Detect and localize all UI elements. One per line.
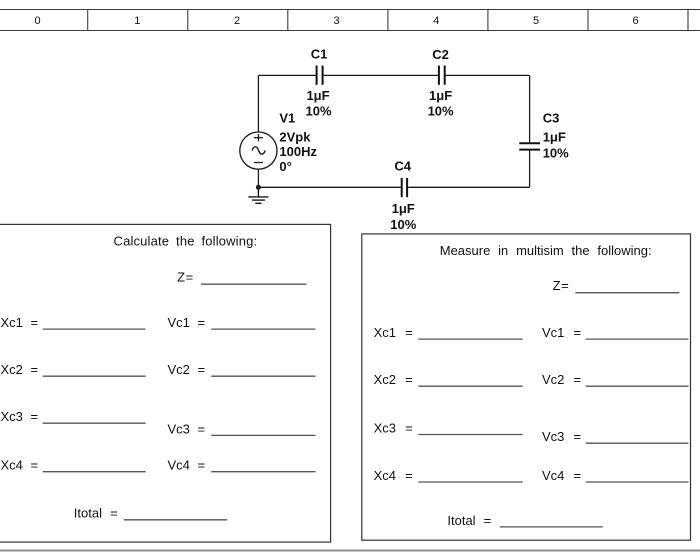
svg-text:1μF: 1μF <box>543 130 566 145</box>
wire: top segment C2 to top-right corner <box>446 74 530 76</box>
svg-text:1μF: 1μF <box>429 88 452 103</box>
svg-text:1: 1 <box>134 15 140 27</box>
svg-text:C2: C2 <box>432 47 449 62</box>
svg-text:4: 4 <box>433 15 439 27</box>
measure box (right worksheet box) <box>362 234 691 540</box>
svg-text:Vc2 =: Vc2 = <box>542 372 581 387</box>
svg-text:Vc1 =: Vc1 = <box>542 325 581 340</box>
wire: top segment V1 to C1 <box>258 74 315 76</box>
svg-text:0: 0 <box>35 15 41 27</box>
svg-text:Xc1 =: Xc1 = <box>374 325 413 340</box>
svg-text:Xc4 =: Xc4 = <box>374 468 413 483</box>
svg-text:Xc2 =: Xc2 = <box>1 362 39 377</box>
svg-text:Vc4 =: Vc4 = <box>168 458 206 473</box>
wire: right vertical down to C3 <box>529 75 531 142</box>
svg-text:10%: 10% <box>390 217 416 232</box>
svg-text:1μF: 1μF <box>306 88 329 103</box>
capacitor C1 <box>317 66 323 85</box>
wire: right vertical C3 to bottom-right corner <box>529 151 531 188</box>
svg-text:Z=: Z= <box>177 270 194 285</box>
C2 value label 1uF 10% <box>428 88 454 118</box>
svg-text:Itotal =: Itotal = <box>74 506 118 521</box>
svg-text:C1: C1 <box>311 47 328 62</box>
svg-text:2Vpk: 2Vpk <box>279 130 311 145</box>
svg-text:Measure in multisim the follow: Measure in multisim the following: <box>440 243 652 258</box>
wire: bottom segment C4 to ground node <box>258 186 400 188</box>
svg-text:Vc4 =: Vc4 = <box>542 468 581 483</box>
C3 value label 1uF 10% <box>543 130 569 161</box>
capacitor C2 <box>439 66 445 85</box>
bottom gray separator line <box>0 550 700 552</box>
svg-text:Vc2 =: Vc2 = <box>168 362 206 377</box>
svg-text:Vc1 =: Vc1 = <box>168 315 206 330</box>
calculate box (left worksheet box) <box>0 224 331 542</box>
C1 value label 1uF 10% <box>305 88 331 119</box>
svg-text:0°: 0° <box>279 159 291 174</box>
capacitor C3 <box>519 143 540 149</box>
svg-text:1μF: 1μF <box>392 201 415 216</box>
svg-text:6: 6 <box>633 15 639 27</box>
svg-text:Itotal =: Itotal = <box>447 513 491 528</box>
svg-text:Xc2 =: Xc2 = <box>374 372 413 387</box>
wire: top segment C1 to C2 <box>324 74 438 76</box>
capacitor C4 <box>402 178 407 197</box>
svg-text:Xc3 =: Xc3 = <box>1 409 39 424</box>
ruler numbers 0-6 <box>35 15 639 27</box>
ground symbol <box>248 187 268 203</box>
svg-text:10%: 10% <box>428 104 454 119</box>
voltage source V1 (AC source symbol) <box>240 132 277 169</box>
svg-text:5: 5 <box>533 15 539 27</box>
svg-text:10%: 10% <box>305 104 331 119</box>
svg-text:10%: 10% <box>543 146 569 161</box>
svg-text:2: 2 <box>234 15 240 27</box>
svg-text:C4: C4 <box>394 159 411 174</box>
C4 value label 1uF 10% <box>390 201 416 232</box>
svg-text:Z=: Z= <box>553 278 570 293</box>
wire: V1 top lead <box>257 75 259 132</box>
svg-text:Vc3 =: Vc3 = <box>542 429 581 444</box>
junction node (V1 minus / ground / bottom wire) <box>256 185 261 190</box>
svg-text:Calculate the following:: Calculate the following: <box>114 233 258 248</box>
ruler scale (top) <box>0 10 700 31</box>
svg-text:Xc1 =: Xc1 = <box>1 315 39 330</box>
V1 value label 2Vpk 100Hz 0deg <box>279 130 317 174</box>
wire: bottom segment corner to C4 <box>408 186 529 188</box>
svg-text:C3: C3 <box>543 111 560 126</box>
svg-text:Xc4 =: Xc4 = <box>1 458 39 473</box>
wire: V1 bottom lead <box>257 169 259 187</box>
svg-text:Vc3 =: Vc3 = <box>168 421 206 436</box>
svg-text:3: 3 <box>334 15 340 27</box>
svg-text:V1: V1 <box>279 110 295 125</box>
svg-text:100Hz: 100Hz <box>279 144 317 159</box>
svg-text:Xc3 =: Xc3 = <box>374 420 413 435</box>
